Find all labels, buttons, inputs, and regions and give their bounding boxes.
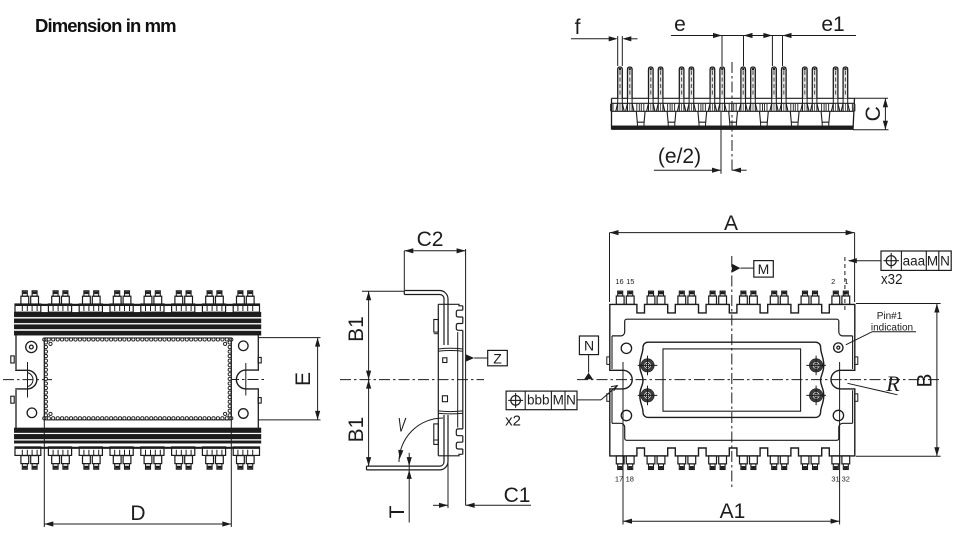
dimension A: [610, 212, 855, 302]
bottom view top pin row: [21, 291, 254, 304]
middle view centerline: [340, 379, 484, 381]
dimension A1: [623, 500, 840, 524]
module body side profile (view with pins up): [612, 98, 855, 129]
svg-text:T: T: [386, 505, 409, 518]
svg-text:Dimension in mm: Dimension in mm: [35, 15, 176, 36]
pin numbers: [615, 277, 850, 483]
pin 1 indicator (top view): [834, 343, 843, 352]
left edge bumps (bottom view): [11, 356, 14, 403]
svg-text:C2: C2: [417, 228, 444, 251]
top heat-sink fin stripes: [14, 312, 261, 335]
pin 1 indicator hole (bottom view): [26, 341, 37, 352]
bottom lead (side view): [367, 415, 449, 470]
right edge bumps (bottom view): [258, 357, 261, 403]
dimension f (pin width): [571, 16, 638, 66]
svg-text:e1: e1: [821, 13, 844, 36]
edge bumps (top view): [607, 357, 858, 401]
svg-text:M: M: [927, 253, 938, 268]
lid plateau with wavy edges: [640, 342, 824, 417]
top view body outline: [610, 304, 855, 456]
svg-text:Pin#1: Pin#1: [877, 311, 903, 322]
svg-text:A: A: [724, 212, 738, 235]
svg-text:C: C: [862, 106, 885, 121]
datum N flag: [579, 336, 598, 379]
svg-text:32: 32: [842, 474, 850, 483]
title text: [35, 15, 176, 36]
dimension B1 upper: [345, 291, 404, 379]
latch detail upper: [434, 320, 439, 334]
svg-text:N: N: [584, 338, 594, 354]
notch center ticks: [623, 362, 840, 525]
bottom view mid-section side edges: [16, 335, 258, 428]
svg-text:B1: B1: [345, 316, 368, 342]
svg-text:A1: A1: [720, 500, 746, 523]
bend angle V: [398, 416, 443, 462]
svg-text:N: N: [940, 253, 950, 268]
top castellated base row: [15, 304, 260, 312]
svg-text:31: 31: [831, 474, 839, 483]
top view upper pins: [616, 291, 849, 304]
left mount notch (bottom view): [3, 362, 52, 398]
corner hole top-right: [239, 341, 249, 351]
svg-text:D: D: [130, 502, 145, 525]
svg-text:2: 2: [831, 277, 835, 286]
lid step outline: [612, 319, 853, 440]
dimension D: [44, 338, 231, 527]
svg-text:e: e: [674, 13, 686, 36]
dimension C2: [404, 228, 465, 290]
right mount notch (bottom view): [228, 363, 267, 396]
bottom heat-sink fin stripes: [14, 428, 261, 443]
svg-text:(e/2): (e/2): [658, 145, 701, 168]
top view vertical centerline: [731, 256, 733, 487]
latch detail lower: [434, 424, 439, 445]
tolerance frame bbb x2: [505, 386, 617, 430]
svg-text:B1: B1: [345, 417, 368, 443]
pin 1 indication note: [846, 311, 916, 345]
mounting plane line: [465, 249, 467, 505]
tolerance frame aaa x32: [845, 251, 951, 310]
dimension (e/2): [654, 62, 747, 174]
dimension B: [856, 304, 941, 457]
pin row side view (16 pins in 8 pairs): [618, 67, 848, 103]
module body side profile (middle view): [438, 304, 463, 456]
svg-text:B: B: [914, 373, 937, 387]
dimension C (body thickness): [853, 98, 889, 129]
svg-text:C1: C1: [504, 484, 531, 507]
svg-text:V: V: [398, 416, 407, 436]
svg-text:M: M: [758, 261, 770, 277]
datum target Z: [466, 350, 508, 366]
top view lower pins: [616, 456, 849, 470]
svg-text:aaa: aaa: [903, 253, 926, 268]
screw bosses: [638, 356, 826, 406]
dimension e and e1 (pin pitches): [671, 13, 856, 66]
solder fillet tick zone: [611, 103, 855, 111]
top lead (side view): [404, 291, 448, 346]
svg-text:18: 18: [626, 474, 634, 483]
dimension T (lead thickness): [386, 453, 412, 523]
dimension B1 lower: [345, 380, 371, 467]
svg-text:15: 15: [626, 277, 634, 286]
corner hole bottom-right (top view): [833, 410, 843, 420]
svg-text:17: 17: [615, 474, 623, 483]
svg-text:x2: x2: [505, 413, 521, 430]
corner hole bottom-right: [239, 409, 249, 419]
datum M flag: [732, 261, 774, 278]
bottom view bottom pin row: [21, 456, 254, 470]
top view horizontal centerline: [577, 379, 940, 381]
substrate dotted outline: [43, 338, 233, 420]
svg-text:x32: x32: [881, 271, 903, 288]
dimension E: [259, 338, 321, 420]
svg-text:bbb: bbb: [527, 393, 550, 408]
svg-text:16: 16: [615, 277, 623, 286]
svg-text:E: E: [292, 372, 315, 386]
corner radius R: [848, 371, 901, 396]
dimension C1: [433, 462, 531, 509]
corner hole bottom-left: [27, 408, 37, 418]
bottom castellated base row: [15, 447, 260, 456]
svg-text:M: M: [553, 393, 564, 408]
svg-text:N: N: [566, 393, 576, 408]
corner hole top-left (top view): [621, 343, 631, 353]
label recess: [663, 349, 801, 411]
small hole upper: [443, 358, 447, 363]
body parting lines: [438, 348, 463, 414]
small hole lower: [442, 396, 447, 402]
svg-text:Z: Z: [493, 351, 502, 367]
corner hole bottom-left (top view): [621, 410, 631, 420]
svg-text:f: f: [575, 16, 581, 39]
standoff slots in body: [636, 111, 830, 126]
